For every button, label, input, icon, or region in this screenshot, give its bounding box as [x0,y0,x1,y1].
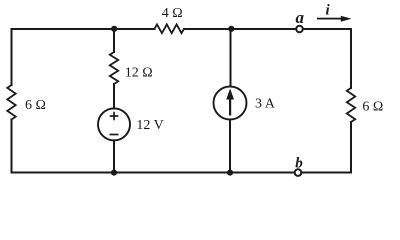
wire current source branch top lead [230,29,232,87]
voltage source minus sign [110,134,119,136]
resistor 4ohm [155,24,185,33]
wire current source to bottom [229,120,231,173]
node junction dot top 12ohm branch [111,26,117,32]
svg-text:3 A: 3 A [255,97,276,112]
svg-text:6 Ω: 6 Ω [362,100,383,115]
svg-text:4 Ω: 4 Ω [162,6,183,21]
wire right vertical upper [350,29,352,88]
wire branch 12ohm top lead [113,29,115,52]
svg-text:b: b [295,156,303,172]
resistor 6ohm right [347,88,355,122]
node junction dot bottom 12ohm branch [111,170,117,176]
current i arrow [317,16,352,22]
wire left vertical lower [11,120,13,173]
resistor 12ohm [110,52,118,84]
svg-text:12 Ω: 12 Ω [125,65,153,80]
node junction dot top current branch [228,26,234,32]
wire left vertical [11,29,13,85]
wire source to bottom [113,140,115,172]
current source arrow [226,89,234,116]
terminal b open circle [295,169,302,176]
svg-text:12 V: 12 V [136,118,163,133]
wire top-left horizontal [12,28,155,30]
terminal a open circle [296,26,303,33]
node junction dot bottom current branch [227,170,233,176]
wire top-right horizontal [184,28,351,30]
wire right vertical lower [350,122,352,173]
resistor 6ohm left [7,85,15,120]
svg-text:6 Ω: 6 Ω [25,98,46,113]
svg-text:i: i [326,3,331,19]
wire 12ohm to source [113,84,115,108]
wire bottom horizontal [12,172,352,174]
current source I1 3A circle [214,87,247,120]
voltage source V1 12V circle [98,108,130,140]
svg-text:a: a [296,8,305,27]
voltage source plus sign [110,112,119,135]
